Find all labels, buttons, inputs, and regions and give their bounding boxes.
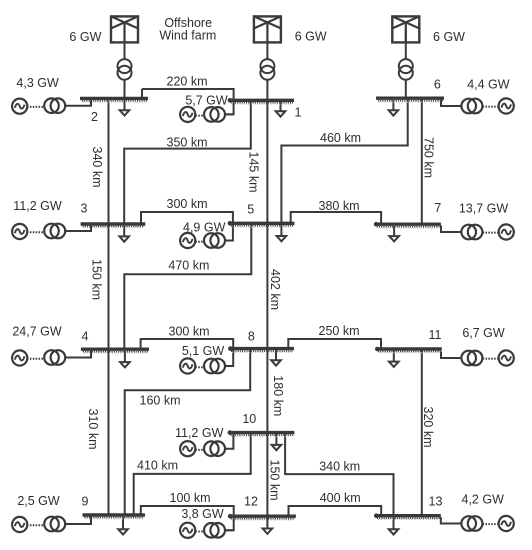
generator G2 (4,3 GW) — [12, 99, 27, 114]
wire 320 km line bus11-bus13 — [421, 351, 423, 516]
wire line 2-3-4-9 (340/150/310 km corridor) — [108, 100, 110, 515]
wire 300 km line bus4-bus8 — [141, 339, 234, 366]
svg-text:10: 10 — [242, 412, 256, 426]
transformer T12 — [204, 523, 225, 538]
generator G12 wires (3,8 GW) — [195, 530, 233, 531]
svg-text:150 km: 150 km — [90, 259, 104, 300]
svg-text:250 km: 250 km — [319, 324, 360, 338]
transformer T7 — [461, 225, 482, 240]
svg-text:4,2 GW: 4,2 GW — [462, 492, 505, 506]
wire 300 km line bus3-bus5 — [141, 212, 233, 241]
generator G3 wires (11,2 GW) — [27, 226, 91, 233]
load arrow bus 3 — [119, 226, 129, 242]
generator G1 (5,7 GW) — [180, 107, 195, 122]
load arrow bus 11 — [389, 351, 399, 367]
svg-text:3: 3 — [81, 202, 88, 216]
generator G4 wires (24,7 GW) — [27, 351, 91, 359]
wire center corridor 1-5-8-10-12 (145/402/180/150 km) — [266, 42, 268, 529]
generator G11 (6,7 GW) — [499, 350, 514, 365]
svg-text:160 km: 160 km — [140, 393, 181, 407]
svg-text:350 km: 350 km — [167, 135, 208, 149]
bus 12 busbar — [228, 514, 296, 520]
svg-text:6,7 GW: 6,7 GW — [462, 326, 505, 340]
transformer T6 — [461, 99, 482, 114]
svg-text:4,9 GW: 4,9 GW — [183, 220, 226, 234]
generator G5 wires (4,9 GW) — [195, 241, 233, 242]
transformer T8 — [204, 359, 225, 374]
wire 400 km line bus12-bus13 — [289, 506, 382, 516]
bus 3 busbar — [81, 224, 146, 228]
svg-text:410 km: 410 km — [137, 458, 178, 472]
svg-text:300 km: 300 km — [169, 324, 210, 338]
transformer T10 — [204, 441, 225, 456]
generator G13 wires (4,2 GW) — [441, 517, 499, 524]
load arrow bus 13 — [389, 518, 399, 535]
svg-text:11: 11 — [429, 328, 442, 342]
load arrow bus 9 — [118, 517, 128, 535]
load arrow bus 10 — [272, 434, 282, 450]
bus 9 busbar — [83, 515, 146, 519]
load arrow bus 1 — [276, 102, 286, 117]
load arrow bus 4 — [120, 351, 130, 367]
load arrow bus 6 — [389, 100, 399, 116]
svg-text:6: 6 — [434, 77, 441, 91]
wind farm 1 stem — [124, 29, 126, 97]
transformer T4 — [44, 350, 65, 365]
load arrow bus 12 — [263, 529, 273, 534]
svg-text:1: 1 — [295, 106, 302, 120]
svg-text:340 km: 340 km — [90, 147, 104, 188]
svg-text:380 km: 380 km — [319, 199, 360, 213]
svg-text:5,1 GW: 5,1 GW — [182, 344, 225, 358]
label Offshore Wind farm — [159, 16, 216, 42]
generator G3 (11,2 GW) — [12, 224, 27, 239]
generator G9 (2,5 GW) — [12, 517, 27, 532]
svg-text:300 km: 300 km — [167, 197, 208, 211]
svg-text:400 km: 400 km — [320, 491, 361, 505]
load arrow bus 7 — [389, 226, 399, 241]
wind farm W3 transformer — [399, 59, 413, 80]
svg-text:2,5 GW: 2,5 GW — [17, 494, 60, 508]
bus 4 busbar — [81, 349, 149, 353]
svg-text:12: 12 — [244, 495, 258, 509]
svg-text:402 km: 402 km — [268, 269, 282, 310]
generator G8 (5,1 GW) — [180, 358, 195, 373]
bus 8 busbar — [228, 346, 294, 352]
generator G7 (13,7 GW) — [499, 224, 514, 239]
svg-text:145 km: 145 km — [247, 152, 261, 193]
load arrow bus 2 — [120, 100, 130, 116]
wire riser 220 km at bus 2 — [141, 89, 143, 97]
generator G12 (3,8 GW) — [180, 523, 195, 538]
svg-text:7: 7 — [434, 201, 441, 215]
generator G10 wires (11,2 GW) — [195, 434, 233, 450]
generator G13 (4,2 GW) — [499, 516, 514, 531]
svg-text:13: 13 — [429, 494, 443, 508]
bus 10 busbar — [228, 430, 295, 436]
svg-text:5,7 GW: 5,7 GW — [185, 93, 228, 107]
generator G11 wires (6,7 GW) — [441, 352, 499, 359]
svg-text:460 km: 460 km — [320, 131, 361, 145]
svg-text:3,8 GW: 3,8 GW — [181, 507, 224, 521]
generator G8 wires (5,1 GW) — [195, 366, 233, 367]
generator G9 wires (2,5 GW) — [27, 517, 91, 526]
svg-text:6 GW: 6 GW — [69, 30, 101, 44]
svg-text:24,7 GW: 24,7 GW — [12, 325, 62, 339]
wire 160 km line bus8-bus9 — [125, 350, 251, 515]
generator G2 wires (4,3 GW) — [27, 100, 91, 107]
svg-text:Wind farm: Wind farm — [159, 28, 216, 42]
svg-text:320 km: 320 km — [421, 407, 435, 448]
load arrow bus 5 — [277, 225, 287, 241]
wire 380 km line bus5-bus7 — [291, 212, 381, 224]
generator G6 wires (4,4 GW) — [441, 100, 499, 107]
generator G5 (4,9 GW) — [180, 233, 195, 248]
wire 460 km line — [281, 99, 407, 224]
wind farm 3 stem — [405, 29, 407, 97]
svg-text:4,3 GW: 4,3 GW — [16, 76, 59, 90]
generator G1 wires (5,7 GW) — [195, 114, 233, 115]
svg-text:180 km: 180 km — [271, 375, 285, 416]
wire 750 km line — [421, 99, 423, 223]
svg-text:11,2 GW: 11,2 GW — [175, 426, 224, 440]
wire 100 km line bus9-bus12 — [141, 506, 234, 530]
wind farm W1 turbine — [111, 16, 138, 42]
wind farm W1 transformer — [118, 59, 132, 80]
wire 340 km line bus10-bus13 — [285, 434, 393, 516]
svg-text:2: 2 — [91, 110, 98, 124]
generator G6 (4,4 GW) — [499, 98, 514, 113]
wire 350 km line — [124, 101, 251, 225]
svg-text:470 km: 470 km — [168, 259, 209, 273]
svg-text:5: 5 — [247, 202, 254, 216]
wire 220 km line — [142, 89, 234, 114]
svg-text:340 km: 340 km — [319, 459, 360, 473]
svg-text:100 km: 100 km — [170, 491, 211, 505]
svg-text:6 GW: 6 GW — [433, 30, 465, 44]
transformer T11 — [461, 351, 482, 366]
svg-text:750 km: 750 km — [422, 137, 436, 178]
transformer T1 — [204, 107, 225, 122]
bus 13 busbar — [374, 513, 441, 519]
transformer T13 — [461, 516, 482, 531]
svg-text:8: 8 — [248, 330, 255, 344]
transformer T2 — [44, 98, 65, 113]
load arrow bus 8 — [271, 350, 281, 366]
svg-text:13,7 GW: 13,7 GW — [459, 202, 509, 216]
transformer T3 — [44, 224, 65, 239]
svg-text:220 km: 220 km — [167, 75, 208, 89]
wind farm W2 turbine — [254, 16, 281, 42]
bus 1 busbar — [228, 98, 294, 104]
svg-text:11,2 GW: 11,2 GW — [13, 199, 62, 213]
generator G10 (11,2 GW) — [180, 441, 195, 456]
svg-text:9: 9 — [82, 495, 89, 509]
svg-text:4: 4 — [82, 329, 89, 343]
transformer T9 — [44, 517, 65, 532]
wire 410 km line bus9-bus10 — [134, 434, 251, 515]
wire 470 km line bus5-bus4 — [124, 225, 251, 351]
wind farm W3 turbine — [392, 16, 419, 42]
wind farm W2 transformer — [260, 59, 274, 80]
svg-text:310 km: 310 km — [86, 409, 100, 450]
bus 2 busbar — [80, 98, 148, 102]
bus 5 busbar — [228, 221, 295, 227]
bus 7 busbar — [374, 222, 441, 228]
transformer T5 — [204, 233, 225, 248]
bus 11 busbar — [375, 347, 442, 353]
generator G4 (24,7 GW) — [12, 350, 27, 365]
wire 250 km line bus8-bus11 — [288, 339, 381, 350]
generator G7 wires (13,7 GW) — [441, 226, 499, 233]
bus 6 busbar — [376, 98, 444, 102]
svg-text:6 GW: 6 GW — [295, 29, 327, 43]
svg-text:4,4 GW: 4,4 GW — [467, 78, 510, 92]
svg-text:150 km: 150 km — [268, 460, 282, 501]
